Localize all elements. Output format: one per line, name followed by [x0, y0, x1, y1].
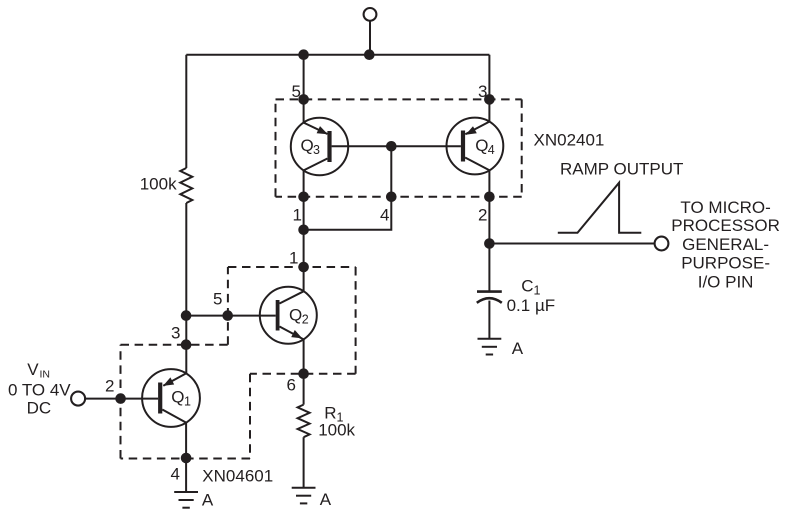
- wire supply stub: [369, 21, 371, 55]
- svg-text:XN02401: XN02401: [534, 130, 605, 149]
- svg-text:A: A: [512, 339, 524, 358]
- node junction rail-Q3 branch: [298, 49, 309, 60]
- wire R1 to ground: [303, 437, 305, 488]
- svg-text:C: C: [521, 277, 533, 296]
- transistor Q1: [142, 369, 200, 427]
- resistor 100k: [180, 168, 192, 203]
- wire input to Q1 base: [85, 398, 158, 400]
- svg-text:4: 4: [171, 465, 180, 484]
- resistor R1: [298, 405, 310, 438]
- label VIN: [8, 360, 71, 418]
- label TO MICROPROCESSOR: [671, 198, 780, 292]
- svg-text:4: 4: [380, 206, 389, 225]
- wire top rail: [186, 54, 489, 56]
- svg-text:GENERAL-: GENERAL-: [682, 235, 769, 254]
- wire left branch lower: [185, 203, 187, 373]
- capacitor C1: [477, 292, 502, 339]
- svg-text:Q: Q: [301, 136, 314, 155]
- svg-text:Q: Q: [171, 388, 184, 407]
- node junction rail-supply: [364, 49, 375, 60]
- svg-text:3: 3: [313, 143, 320, 157]
- node 1 Q2 collector: [298, 262, 309, 273]
- svg-text:5: 5: [292, 82, 301, 101]
- svg-text:A: A: [202, 491, 214, 510]
- svg-text:PROCESSOR: PROCESSOR: [671, 216, 780, 235]
- wire Q4 branch top: [488, 55, 490, 122]
- wire Q3 collector down: [303, 170, 305, 291]
- svg-text:6: 6: [287, 376, 296, 395]
- node 5 Q2: [222, 310, 233, 321]
- input terminal: [71, 392, 85, 406]
- node base junction: [386, 141, 397, 152]
- dashed box XN02401: [276, 99, 522, 196]
- svg-text:RAMP OUTPUT: RAMP OUTPUT: [560, 160, 683, 179]
- ramp output waveform: [558, 183, 642, 233]
- svg-text:5: 5: [213, 290, 222, 309]
- node 3 Q1: [181, 339, 192, 350]
- svg-text:I/O PIN: I/O PIN: [698, 273, 754, 292]
- transistor Q2: [260, 287, 317, 344]
- svg-text:PURPOSE-: PURPOSE-: [681, 254, 770, 273]
- svg-text:100k: 100k: [140, 175, 177, 194]
- output terminal: [655, 237, 669, 251]
- node 6: [298, 368, 309, 379]
- svg-text:XN04601: XN04601: [202, 467, 273, 486]
- svg-text:1: 1: [289, 249, 298, 268]
- svg-text:0 TO 4V: 0 TO 4V: [8, 380, 71, 399]
- svg-text:TO MICRO-: TO MICRO-: [680, 198, 770, 217]
- node 3: [484, 94, 495, 105]
- svg-text:Q: Q: [475, 136, 488, 155]
- transistor Q3: [291, 118, 348, 175]
- wire Q3 branch top: [303, 55, 305, 123]
- node 4: [386, 192, 397, 203]
- node 5: [298, 94, 309, 105]
- wire Q3 base to Q4 base: [332, 145, 461, 147]
- wire Q1 collector to ground: [185, 423, 187, 492]
- wire base junction down to node 4 and corner: [304, 146, 392, 230]
- svg-text:100k: 100k: [318, 420, 355, 439]
- dashed outline XN04601: [121, 267, 356, 459]
- supply terminal: [364, 8, 377, 21]
- ground R1: [292, 488, 316, 504]
- svg-text:2: 2: [478, 206, 487, 225]
- wire Q2 emitter down: [303, 339, 305, 404]
- svg-text:Q: Q: [289, 306, 302, 325]
- svg-text:2: 2: [302, 313, 309, 327]
- svg-text:1: 1: [293, 206, 302, 225]
- wire output: [489, 243, 654, 245]
- wire Q2 base: [186, 315, 276, 317]
- node 2: [484, 192, 495, 203]
- svg-text:4: 4: [488, 143, 495, 157]
- node junction Q2 base / left branch: [181, 310, 192, 321]
- ground Q1: [174, 492, 198, 508]
- svg-text:2: 2: [105, 377, 114, 396]
- node 2 Q1: [115, 393, 126, 404]
- svg-text:3: 3: [478, 82, 487, 101]
- svg-text:1: 1: [184, 395, 191, 409]
- node output junction: [484, 238, 495, 249]
- svg-text:V: V: [27, 360, 39, 379]
- node 1: [298, 192, 309, 203]
- ground C1: [478, 339, 502, 355]
- svg-text:DC: DC: [27, 399, 52, 418]
- svg-text:A: A: [320, 490, 332, 509]
- node 4 Q1: [181, 453, 192, 464]
- node junction collector tie: [298, 225, 309, 236]
- wire left branch upper: [185, 55, 187, 168]
- wire Q4 collector down: [488, 170, 490, 291]
- transistor Q4: [447, 118, 504, 175]
- svg-text:0.1 µF: 0.1 µF: [507, 296, 556, 315]
- svg-text:3: 3: [171, 324, 180, 343]
- svg-text:IN: IN: [40, 368, 51, 380]
